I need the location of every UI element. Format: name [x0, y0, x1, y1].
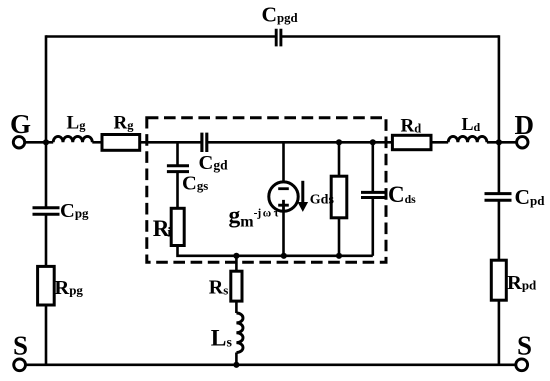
inductor L_g	[53, 136, 92, 142]
svg-text:G: G	[10, 109, 31, 139]
svg-text:Ri: Ri	[153, 216, 172, 241]
label Gds	[310, 192, 335, 207]
label L_g	[67, 113, 87, 134]
wire (L_g to R_g)	[92, 141, 102, 144]
svg-text:Cpgd: Cpgd	[262, 2, 298, 26]
label S left	[13, 331, 28, 361]
wire (R_i down and right along inner bottom rail)	[178, 246, 373, 256]
wire C_ds bottom stub	[371, 198, 374, 256]
label C_gd	[199, 152, 229, 174]
resistor R_s	[231, 271, 242, 301]
resistor R_i	[171, 208, 184, 245]
node G branch junction	[43, 139, 49, 145]
resistor R_pg	[38, 266, 55, 305]
svg-text:Gds: Gds	[310, 192, 335, 207]
label L_s	[211, 326, 233, 352]
terminal S right	[516, 359, 528, 371]
svg-text:Rg: Rg	[114, 113, 135, 134]
capacitor C_gs	[167, 166, 189, 172]
node R_s top junction	[233, 253, 239, 259]
wire R_s branch top	[235, 256, 238, 271]
label G	[10, 109, 31, 139]
wire Gds top stub	[338, 142, 341, 176]
arrowhead	[298, 202, 309, 212]
capacitor C_pg	[33, 208, 60, 215]
resistor R_g	[102, 135, 140, 151]
wire (R_g to C_gd left plate)	[140, 141, 202, 144]
current source plus sign	[278, 200, 289, 211]
node C_ds top junction	[370, 139, 376, 145]
label R_pd	[507, 272, 537, 294]
wire top loop (G to C_pgd left plate)	[46, 35, 275, 38]
label D	[515, 110, 535, 140]
svg-text:D: D	[515, 110, 535, 140]
label C_ds	[388, 182, 416, 207]
wire C_ds top stub	[371, 142, 374, 192]
label C_pd	[515, 185, 546, 209]
terminal D	[517, 137, 528, 148]
label L_d	[462, 114, 481, 134]
label R_d	[401, 116, 422, 137]
wire right vertical (C_pd to S)	[498, 201, 501, 365]
node Gds bottom junction	[336, 253, 342, 259]
wire left vertical (top corner to C_pg)	[45, 35, 48, 207]
dashed intrinsic box	[147, 118, 386, 263]
svg-text:Cgs: Cgs	[182, 172, 208, 194]
wire (C_gd right plate to R_d)	[207, 141, 393, 144]
node D branch junction	[496, 139, 502, 145]
wire Gds bottom stub	[338, 218, 341, 256]
svg-text:Cgd: Cgd	[199, 152, 229, 174]
svg-text:Cpg: Cpg	[60, 200, 89, 222]
wire (L_s to S rail)	[235, 353, 238, 365]
capacitor C_pgd	[276, 29, 281, 47]
node L_s bottom junction	[233, 362, 239, 368]
svg-text:Rpg: Rpg	[54, 277, 83, 299]
wire bottom S rail	[26, 363, 516, 366]
label R_pg	[54, 277, 83, 299]
resistor Gds	[331, 176, 347, 218]
capacitor C_ds	[361, 192, 385, 197]
wire gate row (G to L_g)	[25, 141, 54, 144]
terminal G	[13, 137, 24, 148]
svg-text:S: S	[517, 331, 532, 361]
inductor L_d	[448, 136, 487, 142]
wire left vertical (C_pg to S)	[45, 214, 48, 364]
wire (R_d to L_d)	[431, 141, 448, 144]
terminal S left	[14, 359, 26, 371]
node gm bottom junction	[281, 253, 287, 259]
wire gm source top stub	[282, 142, 285, 182]
svg-text:Cds: Cds	[388, 182, 416, 207]
svg-text:Rs: Rs	[209, 277, 229, 299]
label R_g	[114, 113, 135, 134]
label S right	[517, 331, 532, 361]
svg-text:Ld: Ld	[462, 114, 481, 134]
svg-text:Ls: Ls	[211, 326, 233, 352]
wire (L_d to D terminal)	[487, 141, 517, 144]
svg-text:Rpd: Rpd	[507, 272, 537, 294]
label C_gs	[182, 172, 208, 194]
resistor R_d	[392, 135, 431, 149]
current source gm circle	[269, 182, 298, 211]
wire top loop (C_pgd right plate to D side)	[282, 35, 499, 38]
svg-text:Cpd: Cpd	[515, 185, 546, 209]
current source minus sign	[278, 187, 289, 190]
wire right vertical (top corner to C_pd)	[498, 35, 501, 193]
label R_i	[153, 216, 172, 241]
wire C_gs branch from gate row	[176, 142, 179, 165]
capacitor C_pd	[485, 194, 512, 201]
label gm exponent	[229, 202, 280, 230]
arrow (current direction)	[301, 181, 304, 204]
node Gds top junction	[336, 139, 342, 145]
capacitor C_gd	[202, 133, 207, 152]
svg-text:S: S	[13, 331, 28, 361]
wire (C_gs to R_i)	[176, 172, 179, 209]
label C_pg	[60, 200, 89, 222]
svg-text:Rd: Rd	[401, 116, 422, 137]
label R_s	[209, 277, 229, 299]
wire (R_s to L_s)	[235, 301, 238, 313]
resistor R_pd	[491, 260, 506, 300]
svg-text:Lg: Lg	[67, 113, 87, 134]
label C_pgd	[262, 2, 298, 26]
inductor L_s	[236, 313, 243, 353]
wire gm source bottom stub	[282, 211, 285, 256]
